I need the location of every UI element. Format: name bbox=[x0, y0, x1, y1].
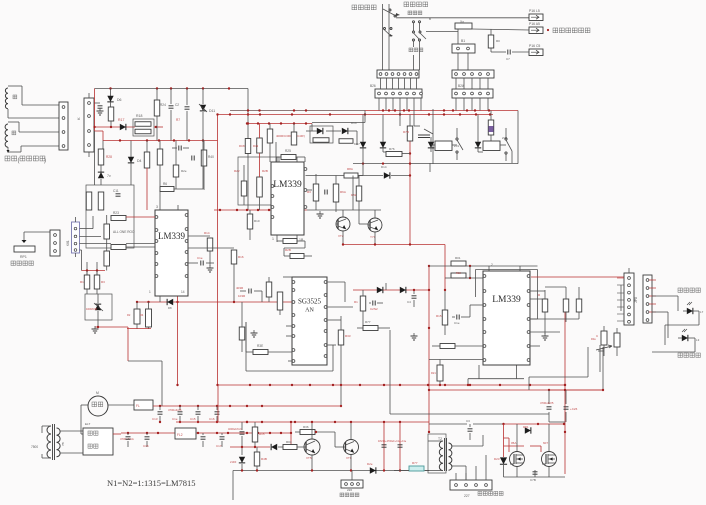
svg-text:C15: C15 bbox=[143, 444, 149, 448]
svg-text:L3: L3 bbox=[696, 338, 700, 342]
svg-text:C16: C16 bbox=[209, 417, 215, 421]
svg-text:C7B: C7B bbox=[530, 478, 536, 482]
svg-text:R2: R2 bbox=[127, 313, 131, 317]
svg-text:RP1: RP1 bbox=[20, 255, 27, 259]
svg-text:R33: R33 bbox=[345, 334, 351, 338]
svg-text:C1e: C1e bbox=[197, 256, 203, 260]
svg-text:R49: R49 bbox=[253, 144, 259, 148]
svg-text:4700uF/25: 4700uF/25 bbox=[168, 408, 182, 412]
svg-text:R0: R0 bbox=[496, 39, 500, 43]
svg-text:R22: R22 bbox=[234, 169, 240, 173]
svg-text:R7: R7 bbox=[176, 118, 180, 122]
svg-text:D11: D11 bbox=[209, 109, 215, 113]
svg-text:R14: R14 bbox=[204, 231, 210, 235]
svg-text:(: ( bbox=[18, 158, 20, 164]
svg-text:R1: R1 bbox=[80, 280, 84, 284]
svg-text:R01: R01 bbox=[455, 256, 461, 260]
svg-text:7500: 7500 bbox=[31, 445, 38, 449]
svg-text:4700uF/25: 4700uF/25 bbox=[540, 401, 554, 405]
svg-text:P16 L5: P16 L5 bbox=[529, 9, 540, 13]
svg-text:R77: R77 bbox=[365, 320, 371, 324]
svg-text:R77: R77 bbox=[412, 461, 418, 465]
svg-text:Xo: Xo bbox=[460, 20, 464, 24]
svg-text:C11: C11 bbox=[113, 189, 119, 193]
svg-text:D6: D6 bbox=[117, 98, 122, 102]
svg-text:R17: R17 bbox=[118, 118, 124, 122]
svg-text:N1=N2=1:1315=LM7815: N1=N2=1:1315=LM7815 bbox=[107, 478, 196, 488]
svg-text:R28: R28 bbox=[106, 155, 112, 159]
svg-text:FL2: FL2 bbox=[177, 433, 183, 437]
svg-text:KD7: KD7 bbox=[354, 142, 360, 146]
svg-text:R4: R4 bbox=[140, 313, 144, 317]
svg-text:+C26: +C26 bbox=[570, 407, 578, 411]
svg-text:LM339: LM339 bbox=[158, 231, 186, 241]
svg-text:R2B: R2B bbox=[262, 169, 268, 173]
svg-text:R15: R15 bbox=[436, 314, 442, 318]
svg-text:7B: 7B bbox=[61, 442, 65, 446]
svg-text:R3: R3 bbox=[307, 190, 311, 194]
svg-text:C1e: C1e bbox=[172, 417, 178, 421]
svg-text:40V3A+4700uF+C1e+C1e: 40V3A+4700uF+C1e+C1e bbox=[378, 440, 407, 443]
svg-text:K: K bbox=[76, 117, 81, 120]
svg-text:D2e: D2e bbox=[367, 462, 373, 466]
svg-text:103R: 103R bbox=[238, 294, 246, 298]
svg-text:R76: R76 bbox=[389, 147, 395, 151]
svg-text:B26: B26 bbox=[370, 84, 376, 88]
svg-text:R2e: R2e bbox=[181, 169, 187, 173]
svg-text:LM339: LM339 bbox=[492, 295, 521, 305]
svg-text:R25: R25 bbox=[285, 149, 291, 153]
svg-text:C13: C13 bbox=[152, 417, 158, 421]
svg-text:R3: R3 bbox=[101, 280, 105, 284]
svg-text:C2N2: C2N2 bbox=[370, 307, 378, 311]
svg-text:AN: AN bbox=[305, 307, 314, 313]
svg-text:R10: R10 bbox=[254, 219, 260, 223]
svg-text:ALL ONE ROO: ALL ONE ROO bbox=[113, 230, 135, 234]
svg-text:C2: C2 bbox=[175, 103, 179, 107]
svg-text:T2: T2 bbox=[438, 437, 442, 441]
svg-text:05A: 05A bbox=[511, 441, 516, 445]
svg-text:RD1: RD1 bbox=[523, 425, 529, 429]
svg-text:R24: R24 bbox=[160, 103, 166, 107]
svg-text:21DF: 21DF bbox=[230, 460, 237, 464]
svg-text:RC8: RC8 bbox=[239, 144, 245, 148]
svg-text:R1: R1 bbox=[354, 300, 358, 304]
svg-text:226: 226 bbox=[347, 488, 352, 492]
svg-text:1: 1 bbox=[272, 237, 274, 241]
svg-text:L7: L7 bbox=[700, 310, 704, 314]
svg-text:4000uF/C21: 4000uF/C21 bbox=[228, 427, 243, 431]
svg-text:VT5: VT5 bbox=[306, 456, 312, 460]
svg-text:R8A: R8A bbox=[347, 167, 353, 171]
svg-text:R6: R6 bbox=[163, 182, 167, 186]
svg-text:D23: D23 bbox=[494, 457, 500, 461]
svg-text:R21: R21 bbox=[431, 371, 436, 375]
svg-text:1: 1 bbox=[149, 290, 151, 294]
svg-text:C7: C7 bbox=[506, 57, 510, 61]
svg-text:ELT: ELT bbox=[85, 422, 90, 426]
svg-text:607: 607 bbox=[543, 441, 548, 445]
svg-text:D4: D4 bbox=[137, 159, 142, 163]
svg-text:C4: C4 bbox=[407, 300, 411, 304]
svg-text:400R/C3RC4R(C4R!): 400R/C3RC4R(C4R!) bbox=[276, 134, 305, 138]
svg-text:7v: 7v bbox=[107, 174, 111, 178]
svg-text:B1: B1 bbox=[461, 39, 465, 43]
svg-text:): ) bbox=[44, 158, 46, 164]
svg-text:400R/C3R: 400R/C3R bbox=[86, 308, 97, 311]
svg-text:D14: D14 bbox=[351, 121, 357, 125]
svg-text:R6A: R6A bbox=[340, 190, 346, 194]
svg-text:R04: R04 bbox=[286, 440, 292, 444]
svg-text:R4B: R4B bbox=[261, 457, 267, 461]
svg-text:3: 3 bbox=[156, 205, 158, 209]
svg-text:D14: D14 bbox=[381, 165, 387, 169]
svg-text:SG3525: SG3525 bbox=[298, 297, 321, 305]
svg-text:P16 C5: P16 C5 bbox=[529, 44, 540, 48]
svg-text:FL: FL bbox=[136, 404, 140, 408]
svg-text:C15: C15 bbox=[190, 417, 196, 421]
svg-text:C1e: C1e bbox=[454, 321, 460, 325]
svg-text:R3e: R3e bbox=[591, 337, 596, 341]
svg-text:R16: R16 bbox=[238, 255, 244, 259]
svg-text:LM339: LM339 bbox=[273, 180, 302, 190]
svg-text:R40: R40 bbox=[208, 155, 214, 159]
svg-text:R36: R36 bbox=[303, 425, 309, 429]
svg-text:R18: R18 bbox=[136, 114, 142, 118]
svg-text:R3E: R3E bbox=[257, 344, 263, 348]
svg-text:R15: R15 bbox=[259, 432, 265, 436]
svg-text:C3: C3 bbox=[466, 419, 470, 423]
svg-text:P16 A5: P16 A5 bbox=[529, 22, 540, 26]
svg-text:R82: R82 bbox=[351, 193, 357, 197]
svg-text:M: M bbox=[96, 391, 99, 395]
svg-text:D8: D8 bbox=[168, 306, 172, 310]
svg-text:K81: K81 bbox=[66, 240, 70, 246]
svg-text:JP8: JP8 bbox=[634, 297, 638, 303]
svg-text:14: 14 bbox=[181, 290, 185, 294]
svg-text:R2B: R2B bbox=[285, 248, 291, 252]
svg-text:403R: 403R bbox=[236, 286, 244, 290]
svg-text:C17: C17 bbox=[216, 444, 222, 448]
svg-text:R02: R02 bbox=[456, 271, 461, 275]
svg-text:R23: R23 bbox=[113, 211, 119, 215]
svg-text:227: 227 bbox=[464, 494, 470, 498]
svg-text:R7B: R7B bbox=[403, 130, 409, 134]
